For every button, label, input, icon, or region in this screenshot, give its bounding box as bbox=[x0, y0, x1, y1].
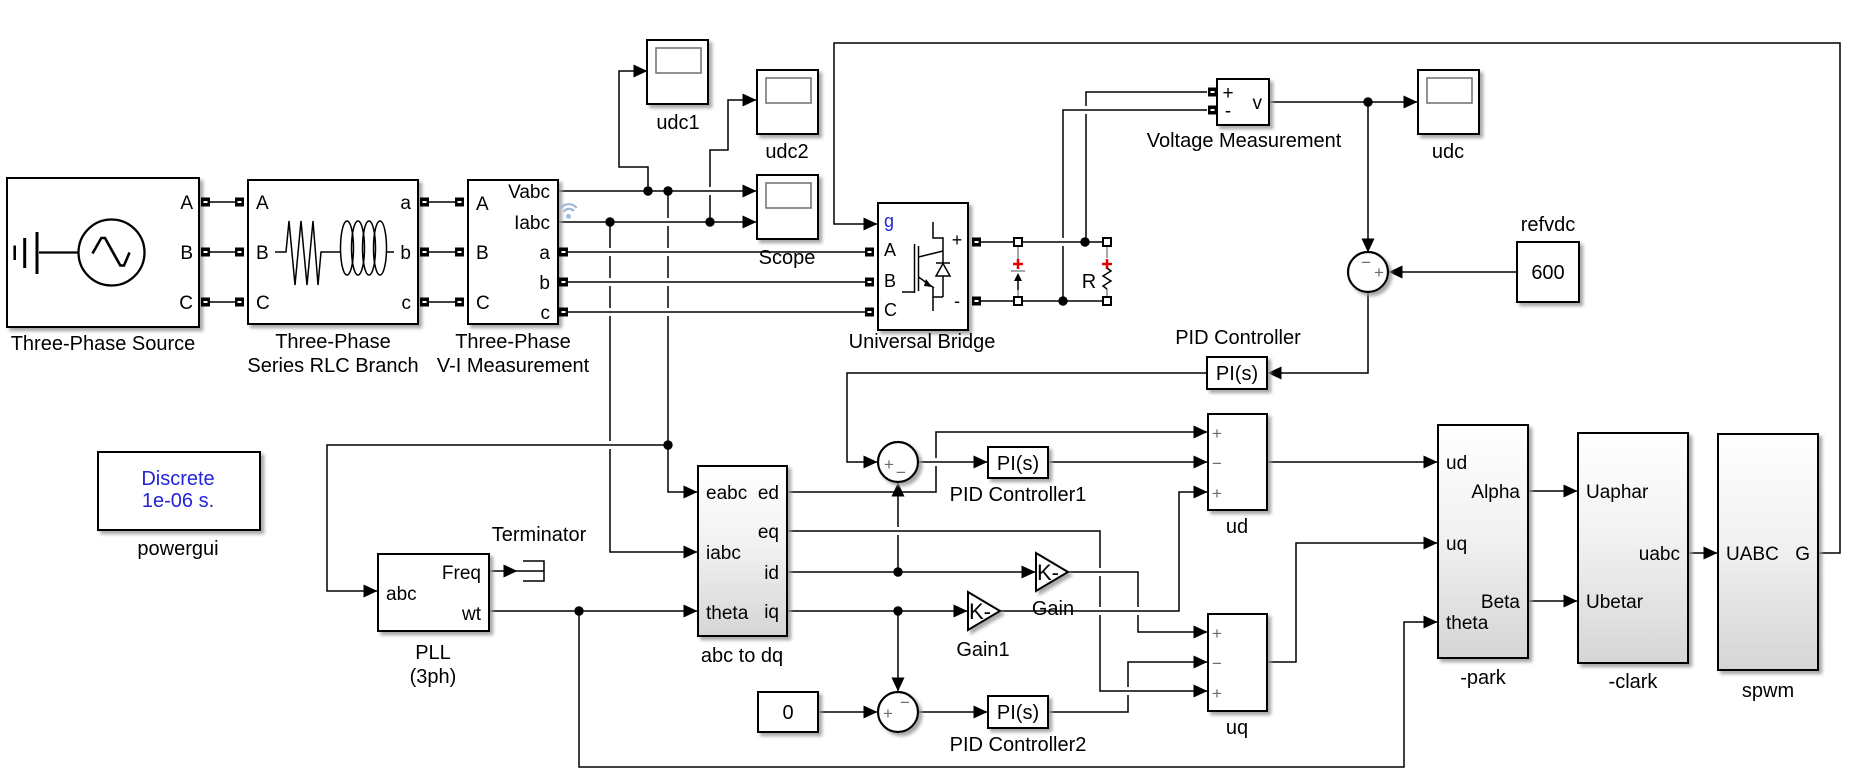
svg-text:udc2: udc2 bbox=[765, 141, 808, 163]
svg-text:theta: theta bbox=[706, 603, 749, 624]
svg-text:+: + bbox=[1212, 424, 1222, 443]
svg-text:eabc: eabc bbox=[706, 483, 747, 504]
svg-text:c: c bbox=[402, 293, 412, 314]
svg-text:uq: uq bbox=[1226, 717, 1248, 739]
svg-text:ud: ud bbox=[1226, 516, 1248, 538]
svg-text:iq: iq bbox=[764, 602, 779, 623]
svg-text:uabc: uabc bbox=[1639, 544, 1680, 565]
svg-text:id: id bbox=[764, 563, 779, 584]
svg-text:Gain: Gain bbox=[1032, 598, 1074, 620]
svg-text:spwm: spwm bbox=[1742, 680, 1794, 702]
svg-text:B: B bbox=[180, 243, 193, 264]
svg-text:b: b bbox=[539, 273, 550, 294]
svg-text:Gain1: Gain1 bbox=[956, 639, 1009, 661]
svg-text:+: + bbox=[1212, 684, 1222, 703]
svg-text:600: 600 bbox=[1531, 262, 1564, 284]
svg-text:C: C bbox=[256, 293, 270, 314]
svg-text:UABC: UABC bbox=[1726, 544, 1779, 565]
svg-text:-: - bbox=[954, 291, 960, 311]
svg-text:Terminator: Terminator bbox=[492, 524, 587, 546]
svg-text:A: A bbox=[180, 193, 193, 214]
svg-text:ud: ud bbox=[1446, 453, 1467, 474]
svg-text:uq: uq bbox=[1446, 534, 1467, 555]
svg-text:A: A bbox=[476, 194, 489, 215]
svg-text:ed: ed bbox=[758, 483, 779, 504]
svg-text:B: B bbox=[256, 243, 269, 264]
svg-text:Freq: Freq bbox=[442, 563, 481, 584]
svg-text:−: − bbox=[1212, 654, 1222, 673]
svg-text:eq: eq bbox=[758, 522, 779, 543]
svg-text:+: + bbox=[1374, 263, 1384, 282]
svg-text:Iabc: Iabc bbox=[514, 213, 550, 234]
svg-text:-: - bbox=[1225, 101, 1231, 122]
svg-text:B: B bbox=[884, 271, 896, 291]
svg-text:+: + bbox=[1212, 484, 1222, 503]
svg-text:Universal Bridge: Universal Bridge bbox=[849, 331, 996, 353]
svg-text:K-: K- bbox=[1037, 560, 1059, 585]
svg-text:-park: -park bbox=[1460, 667, 1507, 689]
svg-text:R: R bbox=[1082, 271, 1096, 293]
svg-text:Voltage Measurement: Voltage Measurement bbox=[1147, 130, 1342, 152]
svg-text:Three-Phase Source: Three-Phase Source bbox=[11, 333, 196, 355]
svg-text:PI(s): PI(s) bbox=[997, 453, 1039, 475]
svg-text:PID Controller2: PID Controller2 bbox=[950, 734, 1087, 756]
svg-text:theta: theta bbox=[1446, 613, 1489, 634]
svg-text:iabc: iabc bbox=[706, 543, 741, 564]
svg-text:C: C bbox=[179, 293, 193, 314]
svg-text:Ubetar: Ubetar bbox=[1586, 592, 1644, 613]
svg-text:Three-Phase: Three-Phase bbox=[455, 331, 571, 353]
svg-text:g: g bbox=[884, 211, 894, 231]
svg-text:PI(s): PI(s) bbox=[997, 702, 1039, 724]
svg-text:B: B bbox=[476, 243, 489, 264]
svg-text:b: b bbox=[400, 243, 411, 264]
svg-text:−: − bbox=[896, 463, 906, 482]
svg-text:Vabc: Vabc bbox=[508, 182, 550, 203]
svg-text:c: c bbox=[541, 303, 551, 324]
svg-text:Scope: Scope bbox=[759, 247, 816, 269]
svg-text:+: + bbox=[884, 455, 894, 474]
svg-text:PLL: PLL bbox=[415, 642, 451, 664]
svg-text:Alpha: Alpha bbox=[1471, 482, 1520, 503]
svg-text:G: G bbox=[1795, 544, 1810, 565]
svg-text:A: A bbox=[884, 240, 896, 260]
svg-text:Three-Phase: Three-Phase bbox=[275, 331, 391, 353]
svg-text:PI(s): PI(s) bbox=[1216, 363, 1258, 385]
svg-text:(3ph): (3ph) bbox=[410, 666, 457, 688]
svg-text:abc: abc bbox=[386, 584, 417, 605]
svg-text:−: − bbox=[900, 693, 910, 712]
svg-text:C: C bbox=[884, 300, 897, 320]
svg-text:+: + bbox=[1212, 624, 1222, 643]
svg-text:K-: K- bbox=[969, 599, 991, 624]
svg-text:PID Controller: PID Controller bbox=[1175, 327, 1301, 349]
svg-text:powergui: powergui bbox=[137, 538, 218, 560]
svg-text:Discrete: Discrete bbox=[141, 468, 214, 490]
svg-text:Series RLC Branch: Series RLC Branch bbox=[247, 355, 418, 377]
svg-text:wt: wt bbox=[461, 604, 482, 625]
svg-text:-clark: -clark bbox=[1609, 671, 1659, 693]
svg-text:−: − bbox=[1361, 253, 1371, 272]
svg-text:0: 0 bbox=[782, 702, 793, 724]
svg-text:Uaphar: Uaphar bbox=[1586, 482, 1649, 503]
svg-text:A: A bbox=[256, 193, 269, 214]
svg-text:abc to dq: abc to dq bbox=[701, 645, 783, 667]
svg-text:1e-06 s.: 1e-06 s. bbox=[142, 490, 214, 512]
svg-text:+: + bbox=[952, 230, 963, 250]
svg-text:a: a bbox=[539, 243, 550, 264]
svg-text:Beta: Beta bbox=[1481, 592, 1521, 613]
svg-text:PID Controller1: PID Controller1 bbox=[950, 484, 1087, 506]
svg-text:refvdc: refvdc bbox=[1521, 214, 1575, 236]
svg-text:V-I Measurement: V-I Measurement bbox=[437, 355, 590, 377]
svg-text:C: C bbox=[476, 293, 490, 314]
svg-text:+: + bbox=[883, 704, 893, 723]
svg-text:v: v bbox=[1253, 93, 1263, 114]
svg-text:−: − bbox=[1212, 454, 1222, 473]
svg-text:udc1: udc1 bbox=[656, 112, 699, 134]
svg-text:a: a bbox=[400, 193, 411, 214]
svg-text:udc: udc bbox=[1432, 141, 1464, 163]
